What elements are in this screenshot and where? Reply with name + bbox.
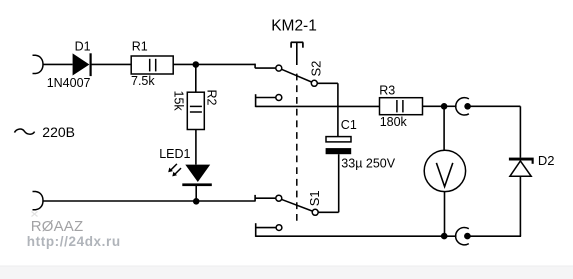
svg-text:http://24dx.ru: http://24dx.ru: [27, 234, 121, 249]
contact S1 pin 3 (stub to bottom rail): [256, 223, 282, 237]
svg-text:15k: 15k: [172, 91, 186, 112]
connector X3 socket arc: [456, 98, 469, 115]
wire D1 to R1: [92, 63, 132, 65]
wire X3 to D2 top corner: [471, 106, 521, 157]
relay mechanical link (dashed): [296, 74, 298, 225]
wire R1 to S2 (with jog at x=255): [173, 64, 276, 69]
resistor R3: [380, 98, 423, 115]
node D (bottom meter junction): [441, 233, 448, 240]
voltmeter PV1: [424, 150, 465, 191]
svg-text:S1: S1: [307, 190, 322, 206]
svg-text:D1: D1: [75, 39, 91, 53]
voltmeter PV1 leads: [443, 106, 445, 236]
svg-text:KM2-1: KM2-1: [271, 18, 317, 35]
resistor R1: [131, 56, 173, 74]
wire R3 to node C: [423, 105, 443, 107]
page bottom strip: [0, 266, 573, 279]
wire node D to connector: [447, 235, 457, 237]
LED LED1: [182, 165, 212, 186]
svg-text:D2: D2: [538, 153, 555, 168]
terminal X2 (AC input bottom-left): [33, 192, 44, 210]
svg-text:R1: R1: [132, 39, 148, 53]
terminal X1 (AC input top-left): [33, 55, 44, 73]
contact S2 pin 1: [276, 65, 282, 71]
wire R2 to LED1: [195, 130, 197, 165]
resistor R2: [187, 92, 204, 129]
wire X1 to D1: [43, 63, 73, 65]
svg-text:220B: 220B: [42, 124, 75, 140]
wire LED1 to bottom rail: [195, 186, 197, 202]
svg-text:1N4007: 1N4007: [47, 76, 91, 90]
contact S2 pin 2: [311, 80, 317, 86]
svg-text:33µ 250V: 33µ 250V: [341, 157, 395, 171]
svg-text:R2: R2: [204, 90, 218, 106]
contact S2 pin 3 (NC stub): [256, 94, 282, 107]
LED1 emission arrows: [168, 164, 181, 177]
wire X2 to S1 (with jog at x=255): [43, 195, 276, 202]
svg-text:R3: R3: [379, 83, 395, 97]
svg-text:S2: S2: [308, 61, 323, 77]
connector X4 socket arc: [456, 227, 469, 244]
wire mid rail to R3: [256, 105, 380, 107]
connector X4 pin: [464, 233, 471, 240]
contact S1 pin 2: [312, 209, 318, 215]
wire C1 bottom to S1: [318, 154, 339, 212]
contact S1 blade: [282, 199, 313, 211]
connector X3 pin: [464, 103, 471, 110]
svg-text:RØAAZ: RØAAZ: [31, 218, 84, 235]
wire D2 to bottom rail: [519, 177, 521, 236]
zener diode D2: [509, 158, 534, 177]
svg-text:C1: C1: [341, 118, 357, 132]
AC tilde symbol: [15, 129, 35, 134]
wire bottom connector to D2 branch: [470, 235, 521, 237]
diode D1: [73, 53, 92, 76]
node A (junction R1/R2): [193, 61, 200, 68]
svg-text:LED1: LED1: [159, 147, 190, 161]
bottom rail to voltmeter node: [256, 235, 442, 237]
contact S1 pin 1: [276, 195, 282, 201]
relay armature symbol: [291, 42, 303, 65]
wire S2 pin2 right and down to C1: [317, 83, 338, 136]
wire node A down to R2: [195, 65, 197, 93]
svg-text:7.5k: 7.5k: [131, 74, 155, 88]
contact S2 blade: [282, 69, 312, 82]
faint cross mark: [32, 212, 38, 217]
wire node C to connector: [447, 105, 457, 107]
node B (junction LED/bottom wire): [193, 198, 200, 205]
node C (top meter junction): [441, 103, 448, 110]
svg-text:180k: 180k: [380, 115, 408, 129]
capacitor C1: [326, 137, 352, 155]
